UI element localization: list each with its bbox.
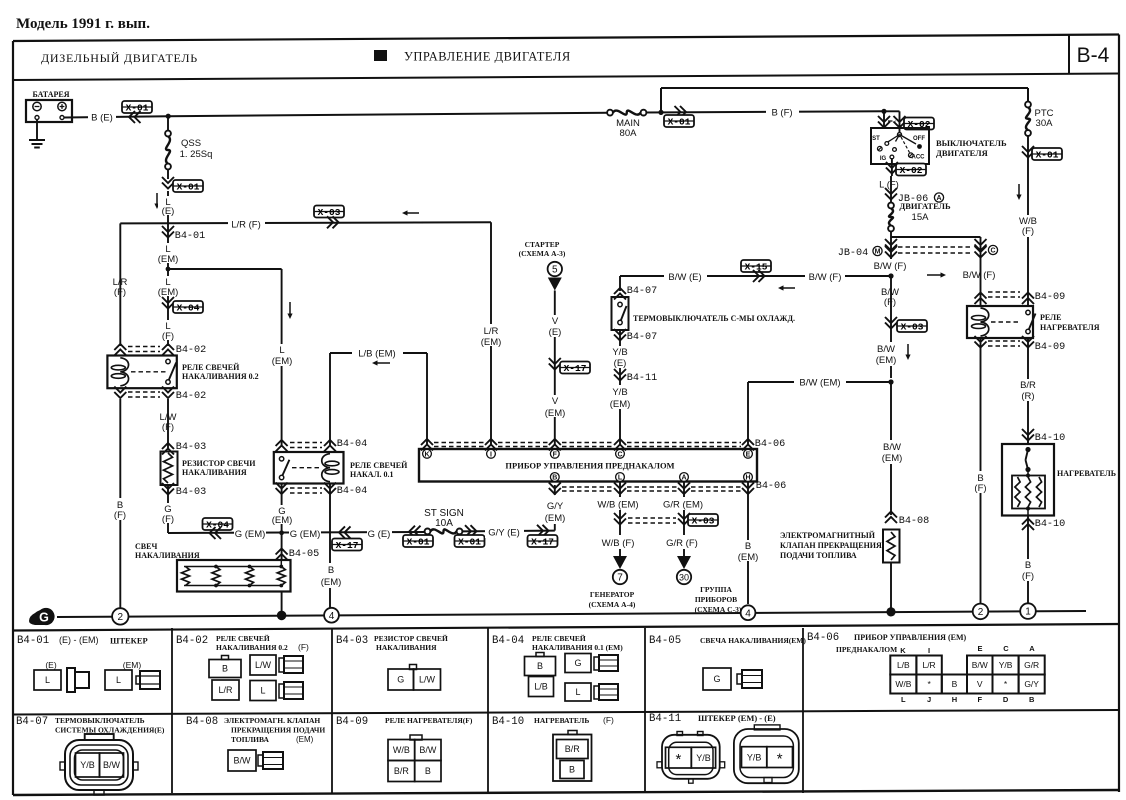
svg-text:B4-09: B4-09 — [1035, 292, 1066, 303]
label W/B (F) — [1014, 215, 1042, 237]
connector B4-03 upper — [162, 442, 206, 455]
label B/W (F) (below JB-04) — [868, 259, 913, 272]
connector C chevrons — [975, 239, 987, 258]
svg-text:L/R (F): L/R (F) — [231, 220, 261, 231]
junction node G/B4-05 — [279, 530, 284, 535]
svg-text:СВЕЧ: СВЕЧ — [135, 542, 157, 551]
svg-text:B4-06: B4-06 — [807, 632, 839, 644]
connector X-01 (battery) — [122, 101, 152, 123]
svg-text:X-01: X-01 — [458, 537, 481, 548]
svg-text:B/W (F): B/W (F) — [963, 270, 996, 281]
label B (F) left — [111, 498, 130, 521]
svg-text:2: 2 — [978, 607, 984, 618]
label L/B (EM) — [352, 346, 403, 360]
destination arrow 7 ГЕНЕРАТОР — [589, 556, 636, 609]
connector X-01 (before ST SIGN) — [403, 526, 433, 548]
svg-text:B: B — [552, 475, 557, 482]
control unit ПРИБОР УПРАВЛЕНИЯ ПРЕДНАКАЛОМ box — [419, 449, 757, 482]
svg-text:НАКАЛИВАНИЯ: НАКАЛИВАНИЯ — [182, 468, 247, 477]
label B/W (F) below node — [868, 285, 913, 308]
svg-text:B: B — [1029, 695, 1035, 704]
svg-text:БАТАРЕЯ: БАТАРЕЯ — [33, 90, 70, 99]
svg-text:УПРАВЛЕНИЕ ДВИГАТЕЛЯ: УПРАВЛЕНИЕ ДВИГАТЕЛЯ — [404, 50, 571, 64]
wire B/R switch down — [1027, 338, 1029, 444]
pin M circle (JB-04) — [873, 246, 882, 255]
svg-text:ACC: ACC — [912, 155, 926, 161]
svg-text:ШТЕКЕР: ШТЕКЕР — [110, 636, 148, 646]
svg-text:5: 5 — [552, 265, 558, 276]
svg-text:L/R: L/R — [922, 660, 935, 670]
svg-text:ДВИГАТЕЛЬ: ДВИГАТЕЛЬ — [899, 201, 951, 211]
svg-text:B4-07: B4-07 — [627, 332, 658, 343]
connector X-03 (B/W line) — [885, 276, 927, 378]
svg-text:ШТЕКЕР (ЕМ) - (Е): ШТЕКЕР (ЕМ) - (Е) — [698, 713, 776, 723]
svg-text:B/W: B/W — [103, 760, 121, 770]
svg-text:ПРИБОР УПРАВЛЕНИЯ (ЕМ): ПРИБОР УПРАВЛЕНИЯ (ЕМ) — [854, 633, 967, 642]
svg-text:C: C — [617, 451, 622, 458]
svg-text:ПРЕКРАЩЕНИЯ ПОДАЧИ: ПРЕКРАЩЕНИЯ ПОДАЧИ — [231, 726, 325, 735]
svg-text:X-01: X-01 — [668, 117, 691, 128]
svg-text:B: B — [1025, 560, 1031, 571]
svg-text:L/B: L/B — [534, 682, 548, 692]
bus junction dot (glow plugs) — [277, 611, 287, 621]
svg-text:X-03: X-03 — [318, 207, 341, 218]
pin A circle (JB-06) — [934, 193, 943, 202]
svg-text:W/B: W/B — [895, 679, 911, 689]
svg-text:B4-11: B4-11 — [627, 373, 658, 384]
wire L/R (F) horizontal — [120, 222, 491, 223]
table grid — [13, 624, 1119, 795]
svg-text:X-01: X-01 — [407, 537, 430, 548]
label resistor name — [182, 459, 256, 477]
svg-text:H: H — [745, 475, 750, 482]
svg-text:A: A — [681, 475, 686, 482]
dashed link JB-04 to C — [898, 247, 973, 253]
svg-text:РЕЗИСТОР СВЕЧИ: РЕЗИСТОР СВЕЧИ — [182, 459, 256, 468]
label B/W (EM) horizontal — [794, 375, 846, 389]
connector X-04 (G line) — [203, 518, 233, 539]
bus circle 2 (left) — [112, 608, 128, 624]
svg-text:ЭЛЕКТРОМАГН. КЛАПАН: ЭЛЕКТРОМАГН. КЛАПАН — [224, 716, 320, 725]
flow arrow left (B/W) — [784, 287, 796, 289]
glow plugs B4-05 box — [177, 560, 291, 592]
pin C — [616, 449, 625, 458]
svg-text:(E): (E) — [45, 660, 57, 670]
svg-text:X-17: X-17 — [336, 540, 359, 551]
pin C circle — [988, 245, 997, 254]
wire L/W to resistor — [167, 399, 169, 448]
wire B (F) relay coil to bus circle 2 — [980, 338, 982, 604]
svg-text:M: M — [875, 249, 881, 256]
svg-text:(F): (F) — [114, 287, 126, 298]
svg-text:Y/B: Y/B — [999, 660, 1013, 670]
ignition switch ВЫКЛЮЧАТЕЛЬ ДВИГАТЕЛЯ box — [871, 128, 929, 164]
svg-text:ПРИБОР УПРАВЛЕНИЯ ПРЕДНАКАЛОМ: ПРИБОР УПРАВЛЕНИЯ ПРЕДНАКАЛОМ — [505, 461, 674, 471]
svg-text:G/Y: G/Y — [1024, 679, 1039, 689]
svg-text:30: 30 — [679, 573, 689, 583]
svg-text:(EM): (EM) — [738, 552, 759, 563]
wire L/R (EM) to pin I — [490, 222, 492, 445]
svg-text:X-04: X-04 — [206, 520, 229, 531]
svg-text:K: K — [424, 451, 429, 458]
svg-text:A: A — [1029, 644, 1035, 653]
label B (F) right — [971, 471, 990, 494]
svg-text:B4-04: B4-04 — [337, 439, 368, 450]
fuse MAIN 80A — [607, 110, 646, 139]
svg-text:(F): (F) — [884, 297, 896, 308]
fuse ST SIGN 10A — [424, 508, 464, 534]
svg-text:Y/B: Y/B — [747, 752, 762, 762]
svg-text:Y/B: Y/B — [612, 347, 627, 358]
label B/W (EM) main — [878, 440, 906, 464]
battery — [26, 90, 72, 122]
svg-text:IG: IG — [880, 156, 887, 162]
svg-text:(F): (F) — [603, 715, 614, 725]
svg-text:L: L — [618, 475, 623, 482]
connector X-17 (G line) — [332, 526, 362, 551]
svg-text:L: L — [260, 686, 265, 696]
label L/W (F) — [155, 410, 182, 433]
label G/R (EM) — [660, 497, 707, 511]
label L/R (F) vertical — [113, 277, 128, 298]
svg-text:B4-04: B4-04 — [492, 635, 524, 647]
wire L (EM) branch to B4-04 — [168, 269, 282, 445]
svg-text:Y/B: Y/B — [696, 753, 711, 763]
svg-text:B4-07: B4-07 — [16, 716, 48, 728]
connector JB-04 M row — [838, 239, 897, 259]
svg-text:B/R: B/R — [565, 744, 581, 754]
connector B4-04 upper row — [276, 439, 368, 452]
svg-text:(EM): (EM) — [272, 515, 293, 526]
wire L/B (EM) — [330, 353, 427, 445]
svg-text:B-4: B-4 — [1077, 44, 1110, 67]
svg-text:V: V — [552, 396, 559, 407]
svg-text:НАКАЛИВАНИЯ 0.2: НАКАЛИВАНИЯ 0.2 — [182, 372, 259, 381]
connector B4-05 — [276, 549, 320, 561]
svg-text:(F): (F) — [298, 642, 309, 652]
svg-text:G: G — [713, 674, 720, 684]
pin L — [616, 473, 625, 482]
svg-text:B4-04: B4-04 — [337, 486, 368, 497]
svg-text:B4-07: B4-07 — [627, 286, 658, 297]
label heater relay name — [1040, 313, 1100, 332]
svg-text:L: L — [279, 345, 284, 356]
table cell B4-08 ЭЛЕКТРОМАГН. КЛАПАН — [186, 716, 325, 771]
svg-text:H: H — [952, 695, 957, 704]
svg-text:L/R: L/R — [484, 326, 499, 337]
svg-text:B4-05: B4-05 — [289, 549, 320, 560]
table cell B4-09 РЕЛЕ НАГРЕВАТЕЛЯ — [336, 716, 473, 782]
table cell B4-07 ТЕРМОВЫКЛЮЧАТЕЛЬ — [16, 716, 165, 795]
svg-text:(E): (E) — [162, 206, 175, 217]
svg-text:B: B — [425, 766, 431, 776]
svg-text:(EM): (EM) — [882, 453, 903, 464]
svg-text:(F): (F) — [974, 483, 986, 494]
connector B4-02 lower row — [114, 387, 206, 403]
svg-text:(EM): (EM) — [158, 287, 179, 298]
svg-text:B/W: B/W — [877, 344, 895, 355]
label G/Y (E) — [485, 525, 524, 539]
label W/B (EM) — [594, 497, 643, 511]
svg-text:B/R: B/R — [394, 766, 410, 776]
wire V starter down to pin F — [554, 291, 556, 446]
svg-text:G/R: G/R — [1024, 660, 1039, 670]
svg-text:РЕЛЕ: РЕЛЕ — [1040, 313, 1061, 322]
svg-text:F: F — [977, 695, 982, 704]
svg-text:W/B: W/B — [393, 745, 410, 755]
svg-text:QSS: QSS — [181, 138, 201, 149]
wire G/R (EM) to gauges — [683, 482, 685, 557]
svg-text:B4-01: B4-01 — [175, 231, 206, 242]
svg-text:80A: 80A — [620, 128, 638, 139]
svg-text:Y/B: Y/B — [612, 387, 627, 398]
table cell B4-02 РЕЛЕ СВЕЧЕЙ НАКАЛИВАНИЯ 0.2 — [176, 634, 309, 701]
bus circle 4 (left) — [324, 608, 339, 623]
svg-text:Y/B: Y/B — [80, 760, 95, 770]
junction node L branch — [166, 267, 171, 272]
junction fuse out — [891, 236, 981, 238]
relay B4-09 (heater relay) box — [967, 306, 1036, 338]
label G (EM) under B4-04 — [270, 505, 294, 526]
connector B4-06 upper row — [421, 439, 785, 451]
svg-text:G/Y: G/Y — [547, 501, 564, 512]
svg-text:НАКАЛИВАНИЯ 0.2: НАКАЛИВАНИЯ 0.2 — [216, 643, 288, 652]
svg-text:G: G — [574, 658, 581, 668]
svg-text:JB-04: JB-04 — [838, 248, 869, 259]
svg-text:C: C — [1003, 644, 1009, 653]
label B/W (E) — [664, 269, 707, 283]
svg-text:*: * — [675, 751, 681, 768]
connector B4-11 — [614, 369, 657, 384]
svg-text:(EM): (EM) — [545, 513, 566, 524]
connector X-03 row (W/B,G/R) — [614, 513, 718, 527]
connector X-01 (PTC) — [1022, 146, 1062, 161]
svg-text:B4-01: B4-01 — [17, 635, 49, 647]
label solenoid valve name — [780, 531, 882, 560]
svg-text:X-03: X-03 — [692, 516, 715, 527]
label G (F) — [158, 503, 179, 525]
svg-text:(EM): (EM) — [876, 355, 897, 366]
svg-text:B: B — [537, 661, 543, 671]
heater B4-10 box — [1002, 444, 1054, 516]
svg-text:(EM): (EM) — [610, 399, 631, 410]
svg-text:L/B (EM): L/B (EM) — [358, 349, 395, 360]
svg-text:E: E — [746, 451, 751, 458]
label B/R (R) — [1014, 379, 1042, 402]
svg-text:B/W (F): B/W (F) — [809, 272, 842, 283]
svg-text:B/W: B/W — [883, 442, 901, 453]
wire B/W (F) right branch down — [980, 237, 982, 306]
connector B4-02 upper row — [114, 344, 206, 356]
svg-text:B4-08: B4-08 — [899, 516, 930, 527]
table cell B4-10 НАГРЕВАТЕЛЬ — [492, 715, 614, 781]
connector B4-10 lower — [1022, 516, 1065, 604]
svg-text:B: B — [569, 765, 575, 775]
junction node top feed — [658, 110, 663, 115]
svg-text:ВЫКЛЮЧАТЕЛЬ: ВЫКЛЮЧАТЕЛЬ — [936, 138, 1007, 148]
svg-text:G/R (EM): G/R (EM) — [663, 500, 703, 511]
svg-text:X-15: X-15 — [745, 262, 768, 273]
svg-text:(R): (R) — [1021, 391, 1034, 402]
label G (EM) right — [289, 526, 321, 540]
svg-text:НАГРЕВАТЕЛЬ: НАГРЕВАТЕЛЬ — [534, 716, 589, 725]
bus junction dot (valve) — [886, 607, 895, 616]
label B (EM) left — [318, 563, 344, 588]
svg-text:E: E — [977, 644, 982, 653]
wire B/W (E) horizontal — [620, 276, 891, 291]
svg-text:B4-09: B4-09 — [336, 716, 368, 728]
wire valve to bus — [890, 563, 892, 612]
svg-text:B4-02: B4-02 — [176, 391, 207, 402]
svg-text:J: J — [927, 695, 931, 704]
svg-text:I: I — [490, 451, 492, 458]
svg-text:1: 1 — [1025, 607, 1031, 618]
svg-text:X-01: X-01 — [1036, 150, 1059, 161]
svg-text:(EM): (EM) — [321, 577, 342, 588]
label B (F) — [766, 105, 799, 119]
label G (EM) left — [234, 526, 266, 540]
svg-text:X-01: X-01 — [177, 182, 200, 193]
svg-text:15A: 15A — [912, 212, 930, 223]
label B (EM) — [735, 540, 762, 563]
label ignition switch name — [936, 138, 1007, 158]
bus circle 4 (right) — [741, 605, 756, 620]
wire G (EM) from B4-04 switch down — [281, 484, 283, 534]
label relay B4-04 name — [350, 461, 408, 479]
svg-text:L: L — [116, 675, 121, 685]
svg-text:L/R: L/R — [218, 685, 233, 695]
svg-text:B: B — [328, 565, 334, 576]
svg-text:B: B — [952, 679, 958, 689]
wire B/W (EM) down to valve — [890, 382, 892, 515]
svg-text:G (EM): G (EM) — [235, 529, 266, 540]
label L (F) — [157, 320, 180, 342]
svg-text:G/R (F): G/R (F) — [666, 538, 698, 549]
svg-text:X-17: X-17 — [564, 363, 587, 374]
svg-text:(EM): (EM) — [123, 660, 142, 670]
flow arrow down (B/W EM) — [907, 344, 909, 355]
svg-text:ПРЕДНАКАЛОМ: ПРЕДНАКАЛОМ — [836, 645, 897, 654]
junction node B/W EM — [888, 379, 893, 384]
label G/R (F) — [660, 535, 705, 549]
svg-text:ЭЛЕКТРОМАГНИТНЫЙ: ЭЛЕКТРОМАГНИТНЫЙ — [780, 531, 876, 540]
wire L/R (F) vertical left — [119, 223, 121, 346]
svg-text:C: C — [990, 248, 995, 255]
svg-text:B4-10: B4-10 — [492, 716, 524, 728]
svg-text:Модель 1991 г. вып.: Модель 1991 г. вып. — [16, 16, 150, 32]
connector B4-06 lower row — [549, 481, 786, 494]
label B (E) — [88, 109, 116, 124]
svg-text:(ЕМ): (ЕМ) — [296, 735, 314, 744]
wire G (EM) down to glow plugs — [281, 533, 283, 560]
svg-text:(СХЕМА А-3): (СХЕМА А-3) — [519, 249, 566, 258]
label L (E) — [158, 196, 180, 217]
svg-text:B4-06: B4-06 — [756, 481, 787, 492]
pin A — [680, 473, 689, 482]
label Y/B (EM) — [605, 385, 634, 410]
svg-text:(F): (F) — [114, 510, 126, 521]
svg-text:РЕЛЕ СВЕЧЕЙ: РЕЛЕ СВЕЧЕЙ — [182, 363, 240, 372]
label L/R (F) — [228, 216, 265, 231]
svg-text:X-04: X-04 — [177, 303, 200, 314]
connector X-17 (G/Y line) — [528, 525, 558, 548]
svg-text:B/W (EM): B/W (EM) — [799, 378, 840, 389]
svg-text:L: L — [45, 675, 50, 685]
svg-text:(EM): (EM) — [481, 337, 502, 348]
svg-text:СВЕЧА НАКАЛИВАНИЯ(ЕМ): СВЕЧА НАКАЛИВАНИЯ(ЕМ) — [700, 636, 806, 645]
wires into ignition switch — [884, 111, 900, 134]
svg-text:ПРИБОРОВ: ПРИБОРОВ — [695, 595, 737, 604]
svg-text:I: I — [928, 646, 930, 655]
pin F — [550, 449, 559, 458]
fusible link QSS 1.25Sq — [165, 118, 212, 179]
svg-text:НАКАЛИВАНИЯ: НАКАЛИВАНИЯ — [376, 643, 437, 652]
svg-text:РЕЛЕ СВЕЧЕЙ: РЕЛЕ СВЕЧЕЙ — [216, 634, 270, 643]
svg-text:(EM): (EM) — [272, 356, 293, 367]
relay B4-04 (glow plug relay No.1) box — [274, 452, 344, 484]
svg-text:B4-06: B4-06 — [755, 439, 786, 450]
flow arrow down (L branch) — [289, 302, 291, 314]
section header text — [41, 50, 571, 66]
svg-text:ТЕРМОВЫКЛЮЧАТЕЛЬ: ТЕРМОВЫКЛЮЧАТЕЛЬ — [55, 716, 145, 725]
wire G/Y (EM) up to control unit pin B — [554, 485, 556, 531]
svg-text:L: L — [901, 695, 906, 704]
svg-text:B (E): B (E) — [91, 113, 113, 124]
label СВЕЧ НАКАЛИВАНИЯ — [135, 542, 200, 560]
svg-text:G (E): G (E) — [368, 529, 391, 540]
connector X-04 (L line) — [162, 297, 203, 314]
connector B4-10 upper — [1022, 429, 1065, 444]
svg-text:X-01: X-01 — [126, 103, 149, 114]
svg-text:КЛАПАН ПРЕКРАЩЕНИЯ: КЛАПАН ПРЕКРАЩЕНИЯ — [780, 541, 882, 550]
table cell B4-06 ПРИБОР УПРАВЛЕНИЯ ПРЕДНАКАЛОМ — [807, 632, 1045, 704]
svg-text:B (F): B (F) — [771, 108, 792, 119]
svg-text:(F): (F) — [162, 514, 174, 525]
table cell B4-03 РЕЗИСТОР СВЕЧЕЙ НАКАЛИВАНИЯ — [336, 634, 448, 690]
wire W/B (EM) to generator — [619, 482, 621, 557]
svg-text:РЕЛЕ НАГРЕВАТЕЛЯ(F): РЕЛЕ НАГРЕВАТЕЛЯ(F) — [385, 716, 473, 725]
svg-text:(E): (E) — [614, 358, 627, 369]
svg-text:L: L — [575, 687, 580, 697]
svg-text:НАКАЛ. 0.1: НАКАЛ. 0.1 — [350, 470, 394, 479]
svg-text:D: D — [1003, 695, 1009, 704]
pin E — [744, 449, 753, 458]
svg-text:10A: 10A — [435, 518, 453, 529]
svg-text:*: * — [777, 751, 783, 768]
label relay B4-02 name — [182, 363, 259, 381]
wire B (EM) from B4-04 coil to bus circle 4 — [329, 484, 331, 608]
thermoswitch B4-07 box — [612, 297, 629, 330]
svg-text:ТОПЛИВА: ТОПЛИВА — [231, 735, 270, 744]
svg-text:(EM): (EM) — [545, 408, 566, 419]
svg-text:(F): (F) — [1022, 571, 1034, 582]
svg-text:B4-09: B4-09 — [1035, 342, 1066, 353]
top feed wire to PTC — [661, 88, 1028, 112]
svg-text:РЕЛЕ СВЕЧЕЙ: РЕЛЕ СВЕЧЕЙ — [532, 634, 586, 643]
label B/W (F) mid — [805, 269, 845, 283]
svg-text:B/W (E): B/W (E) — [668, 272, 701, 283]
page code B-4 box — [1069, 35, 1110, 74]
connector B4-07 upper — [614, 286, 657, 300]
svg-text:B4-02: B4-02 — [176, 345, 207, 356]
svg-text:OFF: OFF — [913, 136, 925, 142]
svg-text:V: V — [977, 679, 983, 689]
svg-text:L/W: L/W — [419, 675, 436, 685]
fuse ДВИГАТЕЛЬ 15A — [888, 201, 951, 270]
svg-text:K: K — [900, 646, 906, 655]
label L (EM) on branch — [270, 344, 294, 367]
pin I — [487, 449, 496, 458]
